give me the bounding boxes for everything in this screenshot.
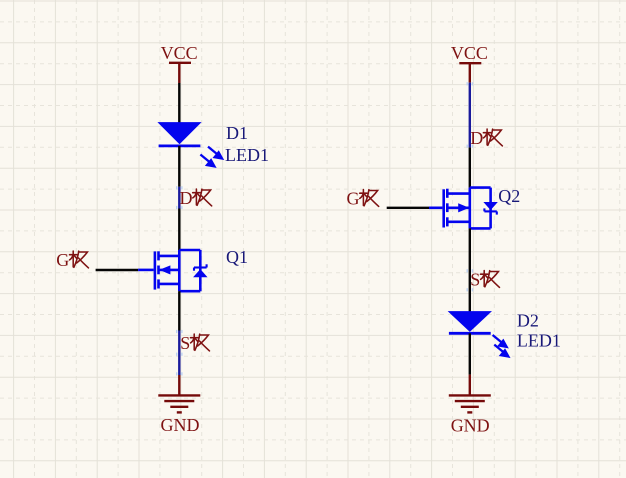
wire: node D to Q2 drain (right) — [469, 147, 471, 187]
svg-text:D: D — [180, 188, 193, 208]
wire: D2 cathode to ground (right) — [469, 333, 471, 374]
svg-text:D2: D2 — [517, 311, 539, 331]
net label S极 (right) — [470, 270, 499, 290]
wire segment at node D (right) — [467, 82, 472, 148]
svg-text:S: S — [180, 333, 190, 353]
svg-text:Q2: Q2 — [498, 186, 520, 206]
wire: gate lead G (right) — [387, 207, 429, 209]
wire: Q1 source down (left) — [178, 291, 180, 330]
LED D2 — [449, 312, 510, 358]
ground symbol (left) — [158, 375, 200, 412]
net label S极 (left) — [180, 333, 209, 353]
power symbol VCC bar (right) — [459, 63, 481, 82]
transistor Q1 (N-MOSFET with body diode) — [138, 250, 207, 291]
wire segment at node D (left) — [177, 186, 182, 209]
wire: D1 cathode down (left) — [178, 146, 180, 187]
net label G极 (right) — [347, 189, 379, 209]
wire: gate lead G (left) — [96, 269, 139, 271]
svg-text:D1: D1 — [226, 123, 248, 143]
LED D1 — [159, 123, 224, 168]
wire: VCC to D1 anode (left) — [178, 83, 180, 123]
svg-text:S: S — [470, 270, 480, 290]
net label G极 (left) — [56, 250, 88, 270]
svg-text:D: D — [470, 128, 483, 148]
power symbol VCC bar (left) — [169, 63, 191, 83]
svg-text:G: G — [347, 189, 360, 209]
svg-text:LED1: LED1 — [225, 145, 269, 165]
net label D极 (right) — [470, 128, 502, 148]
svg-text:Q1: Q1 — [226, 247, 248, 267]
wire: Q2 source to D2 anode (right) — [467, 228, 472, 312]
wire: node D to Q1 drain (left) — [178, 209, 180, 251]
transistor Q2 (MOSFET with body diode) — [429, 188, 497, 229]
svg-text:VCC: VCC — [451, 43, 488, 63]
svg-text:LED1: LED1 — [517, 331, 561, 351]
wire segment at node S (left) — [177, 330, 182, 376]
net label D极 (left) — [180, 188, 212, 208]
svg-text:GND: GND — [451, 415, 490, 435]
ground symbol (right) — [449, 375, 491, 413]
svg-text:VCC: VCC — [161, 43, 198, 63]
svg-text:GND: GND — [161, 415, 200, 435]
svg-text:G: G — [56, 250, 69, 270]
